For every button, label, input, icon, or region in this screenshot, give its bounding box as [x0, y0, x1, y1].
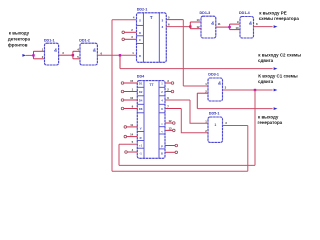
junction tie DD1-4 [228, 26, 230, 28]
output arrow C1 [274, 89, 278, 92]
wire input to DD1-1 tie [26, 54, 34, 56]
gate DD5-1 [208, 117, 223, 142]
gate DD1-1 (NAND as inverter) [45, 43, 59, 65]
wire tie DD1-3 inputs vertical [189, 22, 191, 29]
wire stub DD4 pin 10 [124, 99, 138, 101]
svg-text:сдвига: сдвига [258, 58, 274, 63]
wire stub DD4 <0 pin 13 [165, 129, 173, 131]
wire DD1-4 out to PE arrow [254, 26, 273, 28]
unconnected pin D input DD4 pin 9 [121, 107, 124, 110]
output arrow C2 [274, 67, 278, 70]
svg-text:DD1-1: DD1-1 [44, 38, 55, 42]
wire C2 branch vertical [119, 55, 121, 68]
wire C2 to output arrow [120, 68, 273, 70]
wire DD2-1 Q out [166, 19, 183, 21]
unconnected pin >15 [173, 122, 176, 125]
svg-text:к выходу: к выходу [9, 31, 30, 36]
unconnected pin Q1 [171, 82, 174, 85]
wire up to DD4 +1 input [118, 144, 120, 165]
svg-text:&: & [54, 47, 57, 52]
wire DD1-2 out to DD2-1 R input [97, 54, 136, 56]
unconnected pin D input DD4 pin 10 [121, 99, 124, 102]
wire DD1-3 pin12 stub [190, 28, 201, 30]
svg-text:DD1-2: DD1-2 [79, 38, 90, 42]
svg-text:детектора: детектора [8, 37, 31, 42]
unconnected pin P [175, 144, 178, 147]
svg-text:генератора: генератора [258, 120, 283, 125]
junction C1 branch [254, 89, 256, 91]
svg-text:13: 13 [169, 126, 173, 130]
unconnected pin C of DD2-1 [122, 38, 125, 41]
wire DD1-4 pin10 stub [230, 29, 240, 31]
svg-text:DD1-3: DD1-3 [200, 11, 211, 15]
wire tie DD1-2 inputs vertical [72, 51, 74, 59]
svg-text:DD5-1: DD5-1 [209, 111, 220, 115]
wire tie DD1-1 inputs vertical [33, 51, 35, 59]
unconnected pin Q2 [171, 90, 174, 93]
unconnected pin D input DD4 pin 15 [121, 82, 124, 85]
junction node R / C2 branch [119, 54, 121, 56]
wire DD3-1 pin2 stub [197, 92, 208, 94]
svg-text:DD2-1: DD2-1 [137, 8, 148, 12]
wire DD5-1 out vertical to bottom bus [247, 126, 249, 172]
svg-text:11: 11 [218, 22, 221, 26]
unconnected pin B [175, 151, 178, 154]
input port arrow from edge detector [22, 54, 26, 57]
wire Q to DD3-1 pin 1 [183, 85, 208, 87]
wire DD1-3 out to DD1-4 tie [216, 26, 230, 28]
svg-text:к выходу C2 схемы: к выходу C2 схемы [258, 53, 301, 58]
svg-text:DD1-4: DD1-4 [239, 11, 251, 15]
counter DD4 (CT2 reversible counter) [137, 81, 165, 159]
svg-text:&: & [211, 20, 214, 25]
svg-text:C: C [139, 38, 141, 42]
wire DD1-2 pin5 stub [73, 58, 80, 60]
unconnected pin D of DD2-1 [122, 31, 125, 34]
svg-text:14: 14 [130, 133, 134, 137]
unconnected pin D input DD4 pin 1 [121, 90, 124, 93]
wire stub DD4 pin 9 [124, 108, 138, 110]
svg-text:B: B [161, 151, 163, 155]
wire stub DD4 Q2 pin 2 [165, 91, 171, 93]
junction tie DD1-2 [72, 54, 74, 56]
gate DD1-4 (NAND as inverter) [240, 17, 254, 39]
svg-text:10: 10 [235, 26, 239, 30]
wire stub DD4 pin 4 [127, 151, 137, 153]
svg-text:DD4: DD4 [137, 74, 145, 78]
gate DD1-3 (NAND as inverter) [201, 16, 216, 38]
wire stub DD4 Q1 pin 3 [165, 82, 171, 84]
wire generator net to arrow [197, 108, 272, 110]
wire stub C pin 3 [124, 38, 136, 40]
wire DD4 Q8 out [165, 108, 181, 110]
wire stub D pin 2 [124, 31, 136, 33]
svg-text:R: R [139, 54, 141, 58]
wire stub DD4 B out [165, 151, 175, 153]
wire to DD2-1 S input [112, 19, 137, 21]
wire Q8 down to DD5-1 pin 2 [181, 109, 208, 133]
svg-text:к выходу: к выходу [258, 115, 279, 120]
svg-text:фронтов: фронтов [8, 42, 28, 48]
wire tie DD1-4 inputs vertical [229, 24, 231, 30]
svg-text:10: 10 [130, 96, 134, 100]
svg-text:&: & [218, 81, 221, 86]
wire DD4 Q4 to DD5-1 pin1 [165, 99, 190, 101]
wire stub DD4 P out [165, 145, 175, 147]
svg-text:V: V [140, 126, 142, 130]
wire stub DD4 pin 1 [124, 91, 138, 93]
svg-text:11: 11 [130, 123, 133, 127]
svg-text:D8: D8 [139, 107, 143, 111]
wire Q4 down to DD5-1 pin 1 [190, 100, 208, 123]
wire DD1-1 pin2 stub [34, 58, 45, 60]
wire DD1-1 out to DD1-2 tie [59, 54, 73, 56]
junction input tie DD1-1 [32, 54, 34, 56]
unconnected pin -1 DD4 pin 4 [125, 151, 128, 154]
junction tie DD1-3 [189, 25, 191, 27]
wire stub DD4 pin 15 [124, 82, 138, 84]
wire stub DD4 pin 14 [127, 136, 138, 138]
svg-text:+1: +1 [139, 144, 143, 148]
svg-text:&: & [93, 47, 96, 52]
svg-text:D2: D2 [139, 90, 143, 94]
svg-text:13: 13 [196, 18, 200, 22]
svg-text:D: D [139, 31, 141, 35]
svg-text:P: P [161, 145, 163, 149]
svg-text:1: 1 [214, 123, 216, 127]
wire bottom inner bus [119, 164, 255, 166]
svg-text:12: 12 [169, 119, 173, 123]
wire Q vertical down [182, 20, 184, 86]
unconnected pin R DD4 pin 14 [124, 135, 127, 138]
wire bottom outer bus [112, 170, 248, 172]
wire DD1-3 pin13 stub [190, 21, 201, 23]
counter DD4 internal dividers [143, 81, 145, 159]
svg-text:S: S [139, 18, 141, 22]
wire DD4 +1 stub [119, 143, 137, 145]
wire generator net vertical [196, 93, 198, 108]
svg-text:R: R [140, 136, 142, 140]
svg-text:D1: D1 [139, 82, 143, 86]
svg-text:к выходу PE: к выходу PE [259, 11, 287, 16]
wire C1 vertical down [254, 90, 256, 165]
svg-text:К входу C1 схемы: К входу C1 схемы [258, 74, 298, 79]
svg-text:&: & [249, 20, 252, 25]
wire DD5-1 out to bottom bus [223, 125, 248, 127]
svg-text:схемы генератора: схемы генератора [259, 16, 300, 21]
svg-text:DD3-1: DD3-1 [208, 72, 219, 76]
flip-flop DD2-1 (D-trigger) [137, 13, 167, 63]
wire DD2-1 Qbar out to DD1-3 tie [166, 26, 190, 28]
gate DD3-1 (NAND) [208, 78, 223, 101]
wire feedback vertical left bus [111, 20, 113, 171]
wire stub DD4 pin 11 [127, 126, 138, 128]
flip-flop DD2-1 internal dividers [142, 13, 144, 63]
svg-text:15: 15 [130, 79, 134, 83]
wire DD1-4 pin9 stub [230, 23, 240, 25]
wire DD1-2 pin4 stub [73, 50, 80, 52]
svg-text:сдвига: сдвига [258, 79, 274, 84]
unconnected pin V DD4 pin 11 [124, 126, 127, 128]
svg-text:12: 12 [196, 25, 200, 29]
wire stub DD4 >15 pin 12 [165, 122, 173, 124]
svg-text:T: T [150, 15, 153, 20]
unconnected pin <0 [173, 129, 176, 132]
wire DD1-1 pin1 stub [34, 50, 45, 52]
svg-text:D4: D4 [139, 99, 143, 103]
wire DD3-1 out to C1 arrow [223, 89, 273, 91]
output arrow generator [274, 107, 278, 110]
gate DD1-2 (NAND as inverter) [80, 43, 97, 65]
output arrow PE [274, 25, 278, 28]
